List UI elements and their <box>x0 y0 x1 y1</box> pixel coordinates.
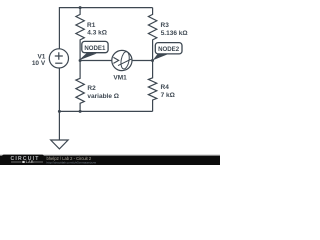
CircuitLab logo tab <box>2 155 44 165</box>
svg-text:7 kΩ: 7 kΩ <box>161 92 175 99</box>
svg-text:R1: R1 <box>87 22 96 29</box>
voltmeter VM1 <box>112 50 132 70</box>
resistor R3 <box>148 8 156 61</box>
junction dot bottom R2 <box>79 110 82 113</box>
wire top rail <box>59 8 152 49</box>
svg-text:VM1: VM1 <box>113 75 127 82</box>
label R4 value <box>161 84 175 99</box>
ground stem <box>58 111 60 139</box>
junction dot top R1 <box>79 6 82 9</box>
node NODE1 flag <box>79 41 108 60</box>
CircuitLab logo <box>11 156 44 164</box>
watermark bar shadow <box>0 154 220 155</box>
node NODE1 junction dot <box>79 59 82 62</box>
svg-text:http://circuitlab.com/c/e5vxma: http://circuitlab.com/c/e5vxmaumjxzw <box>47 161 97 165</box>
resistor R1 <box>76 8 84 61</box>
resistor R2 <box>76 61 84 112</box>
svg-text:variable Ω: variable Ω <box>87 93 119 100</box>
wire node1 to VM1 <box>80 60 112 62</box>
label V1 value <box>32 54 46 67</box>
label R2 value <box>87 85 119 100</box>
wire V1 to bottom rail <box>58 68 60 111</box>
wire bottom rail <box>59 110 152 112</box>
svg-text:R4: R4 <box>161 84 170 91</box>
svg-text:10 V: 10 V <box>32 60 46 67</box>
voltage source V1 <box>49 49 68 68</box>
ground <box>51 140 68 149</box>
wire VM1 to node2 <box>132 60 153 62</box>
node NODE2 junction dot <box>151 59 154 62</box>
svg-text:R3: R3 <box>161 22 170 29</box>
resistor R4 <box>148 61 156 112</box>
node NODE2 flag <box>153 43 182 61</box>
svg-text:NODE2: NODE2 <box>158 46 180 53</box>
svg-text:R2: R2 <box>87 85 96 92</box>
junction dot bottom left <box>58 110 61 113</box>
label R3 value <box>161 22 188 37</box>
watermark bar <box>0 156 220 165</box>
label R1 value <box>87 22 107 37</box>
svg-text:LAB: LAB <box>26 159 34 164</box>
svg-text:NODE1: NODE1 <box>84 45 106 52</box>
svg-text:5.136 kΩ: 5.136 kΩ <box>161 30 188 37</box>
svg-text:4.3 kΩ: 4.3 kΩ <box>87 30 107 37</box>
